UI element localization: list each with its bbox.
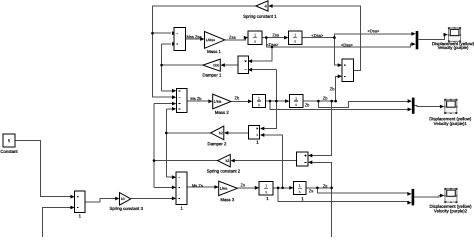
svg-text:1: 1 [256,140,259,145]
svg-text:Zb: Zb [323,96,328,101]
svg-text:Zb: Zb [330,86,335,91]
svg-text:Mass 3: Mass 3 [220,197,234,202]
svg-text:Velocity (purple)2: Velocity (purple)2 [434,208,468,213]
svg-text:Spring constant 2: Spring constant 2 [207,168,241,173]
svg-text:Velocity (purple)1: Velocity (purple)1 [434,121,468,126]
svg-text:Ms Zs: Ms Zs [192,183,203,188]
svg-text:1: 1 [301,196,304,201]
svg-text:Zb: Zb [235,95,240,100]
svg-text:Zs: Zs [309,188,313,193]
svg-text:s: s [258,102,260,107]
svg-text:<Dsa>: <Dsa> [341,42,353,47]
svg-text:1: 1 [79,213,82,218]
svg-text:s: s [295,102,297,107]
svg-text:Damper 1: Damper 1 [202,72,221,77]
svg-text:Zsa: Zsa [229,35,236,40]
svg-text:1/Mss: 1/Mss [206,38,216,42]
svg-text:Zs: Zs [323,183,327,188]
svg-text:Ms Zb: Ms Zb [190,96,202,101]
svg-text:b2: b2 [219,131,223,135]
svg-text:1/Ms: 1/Ms [214,100,222,104]
svg-text:<Dsa>: <Dsa> [368,28,380,33]
svg-text:Spring constant 1: Spring constant 1 [243,14,277,19]
svg-text:1/Ms: 1/Ms [220,187,228,191]
svg-text:Velocity (purple): Velocity (purple) [438,45,469,50]
svg-text:Spring constant 3: Spring constant 3 [110,206,144,211]
svg-text:bbb: bbb [213,63,219,67]
svg-text:s: s [265,189,267,194]
svg-text:Zs: Zs [241,182,245,187]
svg-text:-k: -k [264,4,267,8]
svg-text:Damper 2: Damper 2 [208,141,227,146]
svg-text:k3: k3 [121,197,125,201]
svg-text:Mass 1: Mass 1 [207,49,221,54]
svg-text:Mss Zsa: Mss Zsa [187,34,203,39]
svg-text:Zsa: Zsa [272,32,279,37]
svg-text:Zb: Zb [305,102,310,107]
svg-text:Constant: Constant [0,149,18,154]
svg-text:Mass 2: Mass 2 [215,110,229,115]
svg-text:<Dsa>: <Dsa> [267,42,279,47]
svg-text:1: 1 [180,205,183,210]
svg-text:1: 1 [266,196,269,201]
svg-text:k2: k2 [226,159,230,163]
svg-text:s: s [299,189,301,194]
svg-text:<Dsa>: <Dsa> [311,33,323,38]
svg-text:s: s [294,39,296,44]
svg-text:s: s [254,39,256,44]
